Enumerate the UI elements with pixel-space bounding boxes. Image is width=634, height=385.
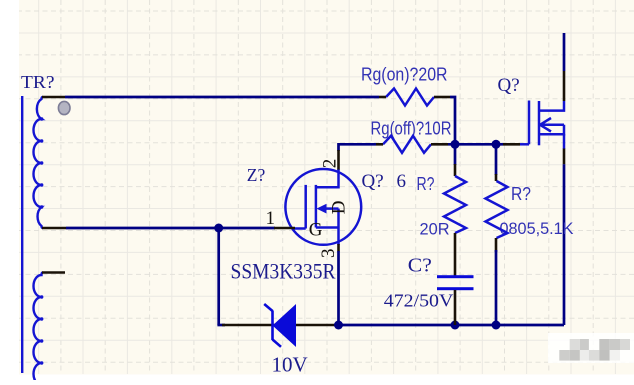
Z? drain pin 2 (black stub) <box>337 150 340 170</box>
transformer pin 1 marker (grey ellipse) <box>58 101 70 114</box>
pin number 2 label (rotated) <box>320 159 341 169</box>
capacitor bottom pin (black) <box>454 290 457 325</box>
resistor Rg(on) 20R zigzag <box>379 89 450 106</box>
transformer TR? designator label <box>21 72 55 92</box>
MOSFET Q? (top right) symbol <box>520 101 564 150</box>
MOSFET Z?/Q? circle body SSM3K335R <box>285 169 361 245</box>
0805,5.1K value label <box>500 219 575 238</box>
watermark background <box>548 333 634 363</box>
svg-text:Q?: Q? <box>498 75 520 96</box>
pin number 3 label (rotated) <box>318 249 339 259</box>
zener diode D? 10V symbol <box>264 304 296 347</box>
junction dot at gate / zener branch <box>214 224 223 233</box>
bottom white margin strip <box>0 375 634 381</box>
junction dot at Rg right leads <box>451 140 460 149</box>
Q? (top right) designator label <box>498 75 520 96</box>
Z? gate pin 1 (black stub) <box>274 227 295 230</box>
svg-text:6: 6 <box>397 171 407 192</box>
junction dot at capacitor bottom <box>451 321 460 330</box>
wire: transformer bottom to MOSFET Z? gate <box>66 227 275 230</box>
svg-text:20R: 20R <box>420 220 450 239</box>
R? (20R) label <box>417 174 435 194</box>
pin name D label (rotated) <box>328 201 349 215</box>
20R value label <box>420 220 450 239</box>
wire: Rg row junction to gate of Q? (top right) <box>448 143 503 146</box>
wire: Q? source down to bottom bus <box>563 164 566 325</box>
left white margin strip <box>0 0 19 380</box>
svg-text:1: 1 <box>266 208 276 229</box>
svg-text:2: 2 <box>320 159 341 169</box>
Z? designator label <box>247 165 266 185</box>
junction dot at R0805 top <box>492 140 501 149</box>
wire: R 0805 bottom to bus <box>495 250 498 325</box>
svg-text:Rg(off)?10R: Rg(off)?10R <box>371 118 452 139</box>
Q? gate pin (black stub) <box>503 143 520 146</box>
resistor R? 0805 vertical zigzag <box>486 174 508 252</box>
zener diode pins (black) <box>222 324 336 327</box>
capacitor C? plates <box>437 275 474 290</box>
wire: dot2 down to R 0805 <box>495 144 498 175</box>
svg-text:472/50V: 472/50V <box>384 291 454 311</box>
svg-text:R?: R? <box>511 184 531 204</box>
wire: transformer top to Rg(on) left <box>65 96 379 99</box>
svg-text:Z?: Z? <box>247 165 266 185</box>
transformer TR? primary winding (top coil) <box>34 97 44 228</box>
pin name G label <box>309 219 323 240</box>
resistor R? 20R vertical zigzag <box>444 164 466 276</box>
resistor Rg(on) label <box>361 64 448 85</box>
R? (0805) label <box>511 184 531 204</box>
Q? source pin (black stub) <box>563 149 566 165</box>
svg-text:0805,5.1K: 0805,5.1K <box>500 219 575 238</box>
svg-text:10V: 10V <box>272 353 308 377</box>
pin number 1 label <box>266 208 276 229</box>
svg-text:3: 3 <box>318 249 339 259</box>
resistor Rg(off) label <box>371 118 452 139</box>
zener value 10V label <box>272 353 308 377</box>
wire: gate junction down to zener <box>217 228 220 325</box>
capacitor value 472/50V label <box>384 291 454 311</box>
svg-text:TR?: TR? <box>21 72 55 92</box>
capacitor C? label <box>408 254 432 276</box>
pin number 6 label <box>397 171 407 192</box>
wire: Rg(off) left lead to Z? drain corner <box>339 144 377 151</box>
svg-text:D: D <box>328 201 349 215</box>
watermark grey blocks <box>559 339 630 361</box>
wire: bottom bus <box>339 324 565 327</box>
svg-text:Rg(on)?20R: Rg(on)?20R <box>361 64 448 85</box>
Q? (circle MOSFET) designator label <box>362 171 384 192</box>
resistor Rg(off) 10R zigzag <box>376 136 448 153</box>
wire: Rg(on) right lead corner down <box>450 97 455 144</box>
wire: zener horizontal run <box>217 324 225 327</box>
svg-text:Q?: Q? <box>362 171 384 192</box>
svg-text:G: G <box>309 219 323 240</box>
transformer TR? core bar <box>21 96 23 373</box>
svg-text:R?: R? <box>417 174 435 194</box>
wire: dot1 down to R 20R <box>454 144 457 165</box>
junction dot at R0805 bottom <box>492 321 501 330</box>
wire: top right drain vertical <box>563 33 566 71</box>
Z? source pin 3 (black stub) <box>337 244 340 252</box>
transformer TR? secondary winding (bottom coil) <box>34 273 44 385</box>
transformer bottom pin of top coil (black stub) <box>42 227 66 230</box>
svg-text:C?: C? <box>408 254 432 276</box>
Q? drain pin (black stub) <box>563 71 566 101</box>
junction dot at zener / pin3 <box>334 321 343 330</box>
transformer top pin (black stub) <box>42 96 65 99</box>
svg-text:SSM3K335R: SSM3K335R <box>231 258 336 283</box>
transformer secondary top pin (black stub) <box>42 271 65 274</box>
wire: pin 3 down to zener junction <box>337 251 340 325</box>
SSM3K335R part number label <box>231 258 336 283</box>
